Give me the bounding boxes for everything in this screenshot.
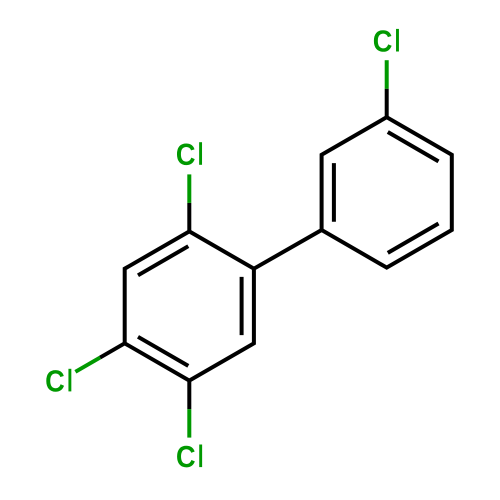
bond C4-Cl green half — [75, 358, 100, 372]
bond C3'-Cl black half — [385, 89, 389, 118]
bond C2-Cl black half — [187, 203, 191, 232]
bond C4-Cl black half — [100, 343, 125, 357]
bond C5-Cl green half — [187, 409, 191, 438]
left benzene ring outline — [125, 231, 254, 380]
Cl label on C3' — [374, 29, 399, 52]
right ring double bond C1'=C2' inner line — [332, 163, 336, 222]
Cl label on C5 — [177, 445, 202, 468]
biphenyl C1-C1' bond — [254, 230, 322, 269]
left ring double bond C2=C3 inner line — [138, 246, 188, 275]
right ring double bond C3'=C4' inner line — [388, 132, 439, 161]
left ring double bond C1=C6 inner line — [240, 277, 244, 335]
bond C5-Cl black half — [187, 381, 191, 410]
right benzene ring outline — [322, 117, 452, 267]
Cl label on C2 — [177, 142, 202, 165]
right ring double bond C5'=C6' inner line — [388, 224, 439, 253]
bond C2-Cl green half — [187, 174, 191, 203]
bond C3'-Cl green half — [385, 60, 389, 88]
Cl label on C4 — [46, 369, 71, 392]
left ring double bond C4=C5 inner line — [138, 337, 188, 366]
